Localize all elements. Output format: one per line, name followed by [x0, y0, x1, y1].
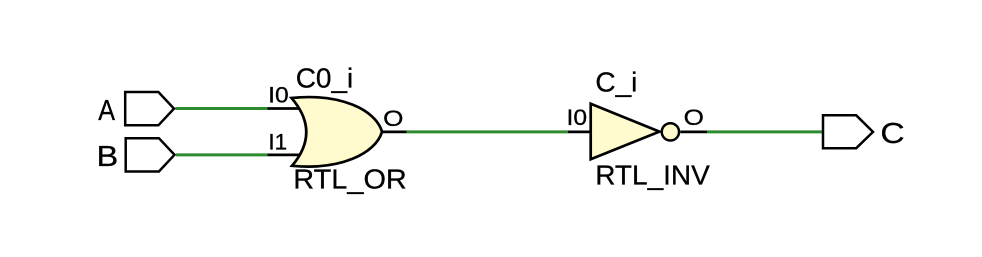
pin stub I1 of OR [268, 153, 301, 156]
inverter C_i triangle [591, 104, 660, 159]
wire net C (inverter to port C) [707, 130, 823, 133]
inverter bubble [662, 123, 679, 140]
pin stub O of OR [382, 130, 407, 133]
svg-text:I1: I1 [268, 130, 287, 155]
pin stub I0 of inverter [568, 130, 592, 133]
svg-text:C: C [880, 118, 904, 150]
wire net A [175, 107, 267, 110]
svg-text:A: A [98, 95, 115, 127]
svg-text:C0_i: C0_i [296, 62, 354, 93]
wire net C0 (OR output to inverter) [407, 130, 569, 133]
or-gate C0_i body [292, 97, 383, 166]
port B [126, 138, 175, 171]
port A [125, 92, 174, 125]
svg-text:O: O [684, 105, 704, 130]
svg-text:O: O [383, 106, 403, 131]
wire net B [176, 153, 268, 156]
svg-text:I0: I0 [268, 82, 289, 107]
port C [823, 115, 873, 148]
svg-text:I0: I0 [567, 105, 588, 130]
pin stub O of inverter [680, 130, 707, 133]
svg-text:C_i: C_i [595, 67, 637, 98]
svg-text:RTL_INV: RTL_INV [595, 160, 710, 191]
svg-text:B: B [97, 141, 119, 173]
pin stub I0 of OR [268, 107, 300, 110]
svg-text:RTL_OR: RTL_OR [293, 163, 407, 194]
